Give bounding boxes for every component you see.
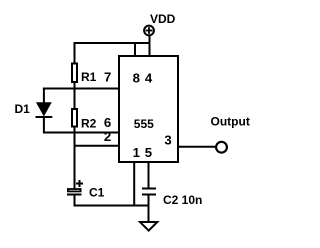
svg-text:R2: R2 <box>81 117 97 131</box>
svg-text:6: 6 <box>104 115 111 130</box>
svg-text:C1: C1 <box>89 186 105 200</box>
svg-text:8: 8 <box>133 71 140 86</box>
svg-text:2: 2 <box>104 129 111 144</box>
svg-text:VDD: VDD <box>150 12 176 26</box>
svg-text:1: 1 <box>133 145 140 160</box>
svg-text:Output: Output <box>211 115 250 129</box>
svg-text:7: 7 <box>104 70 111 85</box>
svg-text:C2 10n: C2 10n <box>163 193 202 207</box>
svg-text:5: 5 <box>145 145 152 160</box>
svg-text:D1: D1 <box>15 102 31 116</box>
svg-text:R1: R1 <box>81 70 97 84</box>
svg-text:4: 4 <box>145 71 153 86</box>
svg-text:3: 3 <box>164 133 171 148</box>
svg-text:555: 555 <box>134 117 154 131</box>
